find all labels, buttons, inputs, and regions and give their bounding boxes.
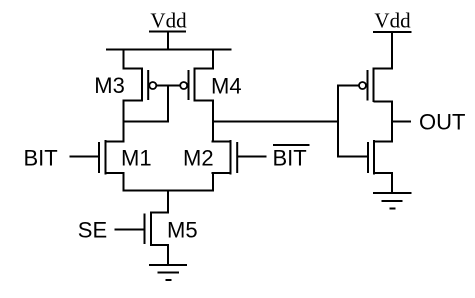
transistor M3 (PMOS) xyxy=(123,68,157,102)
svg-text:M5: M5 xyxy=(167,218,198,243)
label M4 xyxy=(211,74,242,99)
svg-text:M1: M1 xyxy=(121,146,152,171)
label M2 xyxy=(183,146,214,171)
wire common source line xyxy=(123,190,214,192)
wire inverter PMOS gate lead xyxy=(338,85,359,87)
ground (left, under M5) xyxy=(149,265,187,280)
transistor M1 (NMOS) xyxy=(99,140,125,175)
wire inverter input riser xyxy=(337,85,339,158)
label M1 xyxy=(121,146,152,171)
svg-text:M3: M3 xyxy=(94,73,125,98)
wire top Vdd rail xyxy=(106,49,232,51)
wire BIT input xyxy=(70,156,100,158)
wire Vdd stub to rail xyxy=(167,32,169,51)
svg-text:M4: M4 xyxy=(211,74,242,99)
wire tail drop to M5 xyxy=(167,191,169,214)
svg-text:BIT: BIT xyxy=(24,146,58,171)
transistor U1 PMOS (inverter pull-up) xyxy=(359,68,393,103)
wire M5 source drop to ground xyxy=(167,245,169,266)
label SE xyxy=(78,218,107,243)
transistor M4 (PMOS) xyxy=(180,68,214,102)
power Vdd bar (left) xyxy=(149,31,186,33)
label OUT xyxy=(419,110,465,135)
label M5 xyxy=(167,218,198,243)
wire M3 drain column down to M1 drain xyxy=(123,100,125,143)
wire M3 source drop from rail xyxy=(123,49,125,70)
svg-text:BIT: BIT xyxy=(273,146,307,171)
wire M3/M4 gate link xyxy=(156,85,180,87)
svg-text:OUT: OUT xyxy=(419,110,465,135)
wire M1 source drop xyxy=(123,173,125,192)
label BIT (left input) xyxy=(24,146,58,171)
wire right Vdd stub xyxy=(391,32,393,70)
power Vdd label (right) xyxy=(374,9,411,33)
wire OUT stub xyxy=(392,121,411,123)
transistor M5 (NMOS) xyxy=(145,212,170,247)
power Vdd label (left) xyxy=(150,9,187,33)
svg-text:Vdd: Vdd xyxy=(374,9,411,33)
label BITbar with overline (right input) xyxy=(273,145,310,171)
svg-text:Vdd: Vdd xyxy=(150,9,187,33)
wire inverter source drop to ground xyxy=(391,173,393,194)
wire inverter NMOS gate lead xyxy=(338,156,368,158)
label M3 xyxy=(94,73,125,98)
wire M4 drain column down to M2 drain xyxy=(212,100,214,143)
svg-text:SE: SE xyxy=(78,218,107,243)
wire M2 source drop xyxy=(212,173,214,192)
wire gate drop from gate link xyxy=(167,86,169,123)
wire gate feedback node line xyxy=(123,121,169,123)
wire M4 source drop from rail xyxy=(212,49,214,70)
wire inverter drain column xyxy=(391,101,393,143)
wire M2 gate lead xyxy=(237,156,266,158)
power Vdd bar (right) xyxy=(373,31,412,33)
wire output node line to inverter input xyxy=(213,121,339,123)
transistor M2 (NMOS) xyxy=(212,140,238,175)
wire SE input xyxy=(115,229,145,231)
svg-text:M2: M2 xyxy=(183,146,214,171)
ground (right, under inverter) xyxy=(373,193,412,209)
transistor U1 NMOS (inverter pull-down) xyxy=(368,140,393,175)
